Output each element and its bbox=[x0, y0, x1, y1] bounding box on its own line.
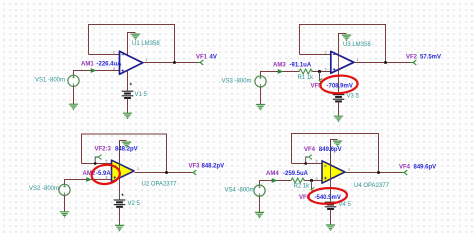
wire U1 V+ supply to ground bbox=[128, 33, 136, 56]
resistor R2 bbox=[291, 178, 305, 183]
red ellipse annotation AM2 reading bbox=[91, 163, 121, 185]
voltage source VS1 bbox=[68, 75, 79, 86]
svg-text:VF1: VF1 bbox=[196, 54, 208, 60]
svg-text:V2 5: V2 5 bbox=[128, 201, 141, 207]
voltage source VS2 bbox=[59, 184, 70, 195]
svg-text:VF2: VF2 bbox=[406, 55, 418, 61]
svg-text:AM2: AM2 bbox=[83, 171, 96, 177]
wire feedback loop U2 bbox=[82, 134, 167, 173]
svg-text:2: 2 bbox=[113, 50, 115, 54]
svg-text:3: 3 bbox=[325, 67, 327, 71]
wire U1 V- to battery V1 bbox=[127, 71, 129, 91]
ammeter AM1 arrow bbox=[91, 68, 97, 73]
wire R2 to node to pin3 bbox=[304, 180, 323, 182]
op-amp U1 input polarity marks bbox=[122, 55, 125, 72]
junction node output U1 bbox=[173, 61, 176, 64]
svg-text:3: 3 bbox=[316, 177, 318, 181]
svg-text:848.2pV: 848.2pV bbox=[202, 163, 225, 169]
svg-text:AM4: AM4 bbox=[266, 171, 279, 177]
wire U3 V+ supply to ground bbox=[339, 34, 347, 56]
wire VS2 to ground bbox=[64, 196, 66, 212]
svg-text:VF4: VF4 bbox=[399, 165, 411, 171]
battery V4 bbox=[325, 202, 337, 209]
wire VS2 to non-inverting input pin3 bbox=[65, 180, 113, 185]
wire battery V3 to ground bbox=[338, 102, 340, 116]
wire output U4 bbox=[346, 172, 405, 174]
svg-text:VS3 -800m: VS3 -800m bbox=[222, 78, 252, 84]
junction node output U4 bbox=[377, 171, 380, 174]
ground under V4 bbox=[326, 225, 335, 230]
battery V3 bbox=[333, 95, 345, 102]
svg-text:VF2:3: VF2:3 bbox=[95, 147, 112, 153]
svg-text:1: 1 bbox=[137, 167, 139, 171]
svg-text:V3 5: V3 5 bbox=[347, 94, 360, 100]
op-amp U2 input polarity marks bbox=[114, 166, 117, 179]
wire output U2 bbox=[135, 172, 193, 174]
battery V2 bbox=[114, 200, 126, 207]
wire battery V2 to ground bbox=[119, 207, 121, 225]
probe hook VF2:3 bbox=[95, 157, 98, 164]
junction node output U3 bbox=[384, 61, 387, 64]
wire VS4 toward pin3 bbox=[260, 181, 292, 186]
junction node output U2 bbox=[165, 171, 168, 174]
resistor R1 bbox=[299, 69, 313, 74]
op-amp U2 bbox=[112, 160, 135, 182]
red ellipse annotation VF5 reading bbox=[320, 75, 358, 95]
svg-text:U1 LM358: U1 LM358 bbox=[132, 41, 160, 47]
svg-text:57.5mV: 57.5mV bbox=[420, 55, 441, 61]
wire battery V4 to ground bbox=[330, 209, 332, 225]
wire U2 V+ supply to ground bbox=[120, 141, 127, 163]
svg-text:V4 5: V4 5 bbox=[339, 202, 352, 208]
op-amp U4 bbox=[322, 161, 345, 183]
wire feedback loop U4 bbox=[292, 134, 379, 173]
wire output U1 bbox=[143, 62, 200, 64]
wire VS1 to non-inverting input pin3 bbox=[74, 71, 121, 76]
wire inverting input U1 pin2 bbox=[89, 54, 121, 56]
ammeter AM4 arrow bbox=[272, 178, 278, 183]
probe VF2 bbox=[411, 60, 416, 65]
svg-text:R2 1k: R2 1k bbox=[294, 184, 311, 190]
wire inverting input U3 pin2 bbox=[300, 54, 332, 56]
battery V1 bbox=[122, 91, 134, 98]
ground under V1 bbox=[123, 113, 132, 118]
svg-text:VS1 -800m: VS1 -800m bbox=[35, 78, 65, 84]
ground under VS4 bbox=[255, 212, 264, 217]
svg-text:2: 2 bbox=[316, 160, 318, 164]
svg-text:2: 2 bbox=[106, 160, 108, 164]
wire inverting input U4 pin2 bbox=[292, 163, 323, 165]
probe VF1 bbox=[198, 60, 203, 65]
op-amp U3 input polarity marks bbox=[333, 55, 336, 71]
svg-text:2: 2 bbox=[325, 50, 327, 54]
ground under V2 bbox=[115, 225, 124, 230]
svg-text:-708.9mV: -708.9mV bbox=[327, 84, 353, 90]
svg-text:4V: 4V bbox=[210, 54, 217, 60]
probe stub VF5 bbox=[319, 72, 321, 81]
svg-text:R1 1k: R1 1k bbox=[298, 75, 315, 81]
svg-text:AM1: AM1 bbox=[81, 61, 94, 67]
svg-text:-259.5uA: -259.5uA bbox=[283, 171, 309, 177]
svg-text:AM3: AM3 bbox=[273, 62, 286, 68]
op-amp U1 bbox=[120, 51, 143, 74]
svg-text:1: 1 bbox=[146, 58, 148, 62]
op-amp U2 supply line over body bbox=[119, 142, 121, 200]
svg-text:1: 1 bbox=[348, 167, 350, 171]
svg-text:-5.9A: -5.9A bbox=[96, 171, 111, 177]
svg-text:1: 1 bbox=[357, 58, 359, 62]
ground under VS3 bbox=[256, 105, 265, 110]
probe VF4 right bbox=[402, 170, 407, 175]
junction node R2 output bbox=[310, 179, 313, 182]
ammeter AM2 arrow bbox=[86, 177, 92, 182]
probe hook VF5 bbox=[319, 78, 322, 82]
ground at U3 V+ bbox=[342, 35, 351, 40]
voltage source VS3 bbox=[255, 76, 266, 87]
svg-text:U4 OPA2377: U4 OPA2377 bbox=[354, 183, 390, 189]
ground at U2 V+ bbox=[122, 142, 131, 147]
svg-text:-91.1uA: -91.1uA bbox=[290, 62, 312, 68]
op-amp U4 supply line over body bbox=[330, 140, 332, 201]
probe hook VF6 bbox=[311, 187, 314, 191]
svg-text:VF3: VF3 bbox=[189, 163, 201, 169]
wire U4 V+ supply to ground bbox=[331, 140, 338, 165]
ground at U4 V+ bbox=[333, 141, 342, 146]
probe VF3 bbox=[191, 170, 196, 175]
wire R1 to node to pin3 bbox=[312, 71, 332, 73]
wire U3 V- through to battery V3 bbox=[338, 56, 340, 95]
ground under V3 bbox=[334, 116, 343, 121]
plus mark battery V1 bbox=[130, 83, 132, 85]
svg-text:VS2 -800m: VS2 -800m bbox=[29, 186, 59, 192]
svg-text:-540.5mV: -540.5mV bbox=[315, 195, 341, 201]
red ellipse annotation VF6 reading bbox=[308, 187, 347, 205]
svg-text:VS4 -800m: VS4 -800m bbox=[225, 188, 255, 194]
svg-text:V1 5: V1 5 bbox=[135, 92, 148, 98]
ground under VS2 bbox=[60, 212, 69, 217]
wire VS3 to ground bbox=[260, 87, 262, 104]
junction node R1 output bbox=[318, 70, 321, 73]
probe hook VF4 top bbox=[306, 157, 309, 164]
svg-text:U2 OPA2377: U2 OPA2377 bbox=[142, 182, 178, 188]
wire output U3 bbox=[354, 62, 413, 64]
op-amp U3 supply line visible bbox=[338, 56, 340, 70]
op-amp U4 input polarity marks bbox=[324, 166, 327, 179]
wire feedback loop U1 bbox=[89, 25, 175, 63]
op-amp U3 bbox=[331, 51, 354, 73]
wire feedback loop U3 bbox=[300, 25, 386, 63]
probe stub VF6 bbox=[311, 181, 313, 190]
ground under VS1 bbox=[69, 104, 78, 109]
ammeter AM3 arrow bbox=[278, 69, 284, 74]
wire VS4 to ground bbox=[259, 196, 261, 212]
wire inverting input U2 pin2 bbox=[82, 163, 113, 165]
svg-text:849.6pV: 849.6pV bbox=[414, 165, 437, 171]
svg-text:3: 3 bbox=[113, 67, 115, 71]
svg-text:U3 LM358: U3 LM358 bbox=[343, 42, 371, 48]
wire battery V1 to ground bbox=[127, 98, 129, 113]
svg-text:-226.4uA: -226.4uA bbox=[97, 61, 123, 67]
ground at U1 V+ bbox=[131, 34, 140, 39]
wire VS1 to ground bbox=[73, 86, 75, 104]
wire VS3 toward pin3 bbox=[261, 72, 300, 76]
svg-text:VF4: VF4 bbox=[304, 147, 316, 153]
voltage source VS4 bbox=[254, 185, 265, 196]
plus mark battery V2 bbox=[121, 194, 123, 196]
